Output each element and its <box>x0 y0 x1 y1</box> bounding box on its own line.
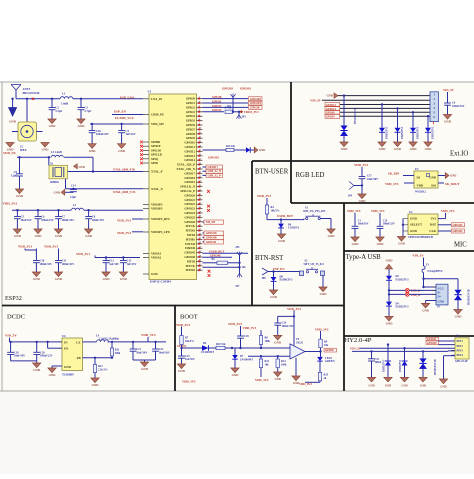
svg-text:GND: GND <box>92 383 100 387</box>
svg-text:ESD5Z5V3: ESD5Z5V3 <box>417 126 420 139</box>
svg-text:GND: GND <box>455 315 463 319</box>
svg-text:100nF/22V: 100nF/22V <box>40 263 53 266</box>
svg-text:GPIO11: GPIO11 <box>184 145 195 149</box>
svg-text:VDD3P3_RTC: VDD3P3_RTC <box>151 217 170 221</box>
svg-text:GPIO19: GPIO19 <box>208 156 219 160</box>
svg-text:GND: GND <box>450 174 456 178</box>
svg-text:VDD_3V3: VDD_3V3 <box>385 182 399 186</box>
svg-text:GPIO23: GPIO23 <box>184 207 195 211</box>
svg-text:9: 9 <box>199 123 200 125</box>
svg-text:GND: GND <box>151 272 159 276</box>
svg-text:GPIO18: GPIO18 <box>222 87 233 91</box>
svg-text:10uF/50V: 10uF/50V <box>367 178 378 181</box>
svg-text:VDD_3V3: VDD_3V3 <box>371 209 385 213</box>
svg-text:BTN-USER: BTN-USER <box>255 169 289 176</box>
svg-text:GPIO8: GPIO8 <box>325 348 334 352</box>
svg-text:GND: GND <box>259 148 265 152</box>
svg-text:21: 21 <box>199 176 201 178</box>
svg-text:GND: GND <box>9 120 17 124</box>
svg-text:GPIO20: GPIO20 <box>184 193 195 197</box>
svg-text:100k: 100k <box>281 364 287 367</box>
svg-text:35: 35 <box>199 238 201 240</box>
svg-text:FLASH_VCC: FLASH_VCC <box>115 116 135 120</box>
svg-text:VDDA2: VDDA2 <box>151 256 162 260</box>
svg-text:U1: U1 <box>148 89 152 93</box>
svg-text:GND: GND <box>410 229 418 233</box>
svg-text:42: 42 <box>199 269 201 271</box>
svg-text:ESD5Z5V3: ESD5Z5V3 <box>383 359 386 372</box>
svg-text:SMT_SW_TS_013: SMT_SW_TS_013 <box>304 263 325 266</box>
svg-text:ESP_EN: ESP_EN <box>114 109 127 113</box>
svg-text:R10 51k: R10 51k <box>216 343 226 346</box>
svg-text:IPEX: IPEX <box>20 148 27 152</box>
svg-text:15k: 15k <box>242 266 247 269</box>
svg-text:4: 4 <box>199 101 200 103</box>
svg-text:GPIO5: GPIO5 <box>186 119 196 123</box>
svg-text:GPIO3: GPIO3 <box>212 108 222 112</box>
svg-text:1N4148WT: 1N4148WT <box>240 358 253 361</box>
svg-text:GND: GND <box>103 277 111 281</box>
svg-text:GPIO39: GPIO39 <box>206 231 217 235</box>
svg-text:MTDO: MTDO <box>186 268 196 272</box>
svg-text:VDD_3V3: VDD_3V3 <box>287 307 301 311</box>
svg-text:GND: GND <box>359 199 367 203</box>
svg-text:30: 30 <box>199 216 201 218</box>
svg-text:GND: GND <box>440 385 446 389</box>
svg-text:ESP32-C3FH4: ESP32-C3FH4 <box>150 280 171 284</box>
svg-text:37: 37 <box>199 247 201 249</box>
svg-text:GPIO19: GPIO19 <box>250 101 261 105</box>
svg-text:22: 22 <box>199 181 201 183</box>
svg-text:HY2.0-4P: HY2.0-4P <box>345 337 372 344</box>
svg-text:GPIO13: GPIO13 <box>184 154 195 158</box>
svg-text:CHIP_PU: CHIP_PU <box>151 113 165 117</box>
svg-text:34: 34 <box>199 233 201 235</box>
svg-text:500k: 500k <box>115 352 121 355</box>
svg-text:GND: GND <box>118 149 126 153</box>
svg-text:20: 20 <box>199 172 201 174</box>
svg-text:GND: GND <box>385 383 391 387</box>
svg-text:GPIO8: GPIO8 <box>212 95 222 99</box>
svg-text:GND: GND <box>386 258 394 262</box>
svg-text:GND: GND <box>64 365 72 369</box>
svg-text:10uF/16V: 10uF/16V <box>358 223 369 226</box>
svg-text:100nF/25V: 100nF/25V <box>452 105 465 108</box>
svg-text:GPIO1: GPIO1 <box>212 99 222 103</box>
svg-text:VDD_3V3: VDD_3V3 <box>182 380 196 384</box>
svg-text:GND: GND <box>398 242 406 246</box>
svg-text:VDD_3V1: VDD_3V1 <box>76 252 90 256</box>
svg-text:GPIO26: GPIO26 <box>184 220 195 224</box>
svg-text:GPIO10: GPIO10 <box>184 141 195 145</box>
svg-text:28: 28 <box>199 207 201 209</box>
svg-text:12pF: 12pF <box>11 174 17 178</box>
svg-text:32: 32 <box>199 225 201 227</box>
svg-text:23: 23 <box>199 185 201 187</box>
svg-text:SK_DOUT: SK_DOUT <box>445 182 459 186</box>
svg-text:PIN4: PIN4 <box>457 353 464 357</box>
svg-text:GND: GND <box>386 322 394 326</box>
svg-text:GND: GND <box>79 165 85 169</box>
svg-text:GND: GND <box>89 149 97 153</box>
svg-text:JP3: JP3 <box>242 116 247 119</box>
svg-text:VDD_3V3: VDD_3V3 <box>176 323 190 327</box>
svg-text:100nF/22V: 100nF/22V <box>40 355 53 358</box>
svg-text:TCR8B9: TCR8B9 <box>62 372 74 376</box>
svg-text:0.5A@PPTC: 0.5A@PPTC <box>428 269 443 273</box>
svg-text:JP4: JP4 <box>348 195 353 198</box>
svg-text:36: 36 <box>199 242 201 244</box>
svg-text:PIN1: PIN1 <box>457 339 464 343</box>
svg-text:GND: GND <box>422 309 430 313</box>
svg-text:GND: GND <box>33 277 41 281</box>
svg-text:10k: 10k <box>324 344 329 347</box>
svg-text:24: 24 <box>199 189 201 191</box>
svg-text:GND: GND <box>35 234 43 238</box>
svg-text:GND: GND <box>16 194 24 198</box>
svg-text:GND: GND <box>425 147 433 151</box>
svg-text:GND: GND <box>53 191 60 195</box>
svg-text:VDD_3V3: VDD_3V3 <box>354 163 368 167</box>
svg-text:XTAL_32K_N: XTAL_32K_N <box>176 167 195 171</box>
svg-text:GPIO18: GPIO18 <box>184 176 195 180</box>
svg-text:VDD3P3: VDD3P3 <box>151 207 163 211</box>
svg-text:3V3: 3V3 <box>431 217 437 221</box>
svg-text:DAT: DAT <box>430 223 436 227</box>
svg-text:VDD_3V3: VDD_3V3 <box>347 209 361 213</box>
svg-text:GPIO8: GPIO8 <box>250 106 260 110</box>
svg-text:GPIO19: GPIO19 <box>184 180 195 184</box>
svg-text:GPIO14: GPIO14 <box>184 158 195 162</box>
svg-text:MTDI: MTDI <box>187 233 196 237</box>
svg-text:C10D5V3: C10D5V3 <box>288 227 300 230</box>
svg-text:40: 40 <box>199 260 201 262</box>
svg-text:100nF/25V: 100nF/25V <box>282 325 295 328</box>
svg-text:CLK: CLK <box>429 229 436 233</box>
svg-text:GPIO24: GPIO24 <box>184 211 195 215</box>
svg-text:38: 38 <box>199 251 201 253</box>
svg-text:RGB LED: RGB LED <box>296 172 325 179</box>
svg-text:GPIO9: GPIO9 <box>186 136 196 140</box>
svg-text:8: 8 <box>199 119 200 121</box>
svg-text:GND: GND <box>420 383 426 387</box>
svg-text:GND: GND <box>14 234 22 238</box>
svg-text:C14: C14 <box>71 184 76 188</box>
svg-text:17: 17 <box>199 159 201 161</box>
svg-text:GPIO1: GPIO1 <box>186 101 196 105</box>
svg-text:VDD_3V3: VDD_3V3 <box>243 326 257 330</box>
svg-text:VDD_3V3: VDD_3V3 <box>441 209 455 213</box>
svg-text:GPIO40: GPIO40 <box>206 236 217 240</box>
svg-text:GND: GND <box>78 124 86 128</box>
svg-text:GND: GND <box>141 367 149 371</box>
svg-text:10: 10 <box>199 128 201 130</box>
svg-text:2.1k/1%: 2.1k/1% <box>98 369 108 372</box>
svg-text:GPIO18: GPIO18 <box>250 97 261 101</box>
svg-text:GND: GND <box>401 383 407 387</box>
svg-text:GND: GND <box>278 239 286 243</box>
svg-text:10uF/16V: 10uF/16V <box>21 219 32 222</box>
svg-text:JP5: JP5 <box>235 246 240 249</box>
svg-text:VIN_5V: VIN_5V <box>412 254 424 258</box>
svg-text:29: 29 <box>199 211 201 213</box>
svg-text:GND: GND <box>326 94 333 98</box>
svg-text:ESD5Z5V3: ESD5Z5V3 <box>432 126 435 139</box>
svg-text:22k: 22k <box>231 145 236 148</box>
svg-text:39: 39 <box>199 255 201 257</box>
svg-text:GPIO8: GPIO8 <box>186 132 196 136</box>
svg-text:PROANT440: PROANT440 <box>23 91 40 95</box>
svg-text:U3: U3 <box>415 167 419 171</box>
svg-text:WS2812: WS2812 <box>415 190 426 194</box>
svg-text:GND: GND <box>270 295 278 299</box>
svg-text:10k/5%: 10k/5% <box>185 340 194 343</box>
svg-text:GND: GND <box>438 299 445 303</box>
svg-text:U2: U2 <box>409 210 413 214</box>
svg-text:10k: 10k <box>265 364 270 367</box>
svg-text:VDD_3V3: VDD_3V3 <box>117 218 131 222</box>
svg-text:GPIO17: GPIO17 <box>184 171 195 175</box>
svg-text:100nF/25V: 100nF/25V <box>41 219 54 222</box>
svg-text:25: 25 <box>199 194 201 196</box>
svg-text:PESD5Z5V1B: PESD5Z5V1B <box>354 107 357 124</box>
svg-text:41: 41 <box>199 264 201 266</box>
svg-text:GPIO12: GPIO12 <box>184 149 195 153</box>
svg-text:10uF/16V: 10uF/16V <box>159 351 170 354</box>
svg-text:GPIO4: GPIO4 <box>186 114 196 118</box>
svg-text:GND: GND <box>49 373 57 377</box>
svg-text:MI_SD: MI_SD <box>206 220 215 224</box>
svg-text:GPIO45: GPIO45 <box>184 251 195 255</box>
svg-text:FB: FB <box>77 356 81 360</box>
svg-text:VDD3_3V1: VDD3_3V1 <box>244 110 259 114</box>
svg-text:SPICLK_N: SPICLK_N <box>180 185 196 189</box>
svg-text:VIN_5V: VIN_5V <box>350 346 362 350</box>
svg-text:USB_32_P: USB_32_P <box>208 173 222 177</box>
svg-text:XTAL_32K_P: XTAL_32K_P <box>177 163 195 167</box>
svg-text:26: 26 <box>199 198 201 200</box>
svg-text:USB_D+: USB_D+ <box>411 293 422 297</box>
svg-text:27: 27 <box>199 203 201 205</box>
svg-text:GPIO25: GPIO25 <box>184 215 195 219</box>
svg-text:GND: GND <box>410 147 418 151</box>
svg-text:GPIO0: GPIO0 <box>186 97 196 101</box>
svg-text:C18: C18 <box>244 335 249 338</box>
svg-text:GND: GND <box>274 341 282 345</box>
svg-text:VDD_3V3: VDD_3V3 <box>18 245 32 249</box>
svg-text:VDD_3V3: VDD_3V3 <box>141 333 156 337</box>
svg-text:GND: GND <box>85 234 93 238</box>
svg-text:1uF/16V: 1uF/16V <box>125 132 135 136</box>
svg-text:GND: GND <box>368 383 374 387</box>
svg-text:100nF/25V: 100nF/25V <box>62 219 75 222</box>
svg-text:GND: GND <box>352 242 360 246</box>
svg-text:BTN-RST: BTN-RST <box>255 255 284 262</box>
svg-text:GPIO11: GPIO11 <box>427 338 437 341</box>
svg-text:7: 7 <box>199 115 200 117</box>
svg-text:10uF/16V: 10uF/16V <box>14 355 25 358</box>
svg-text:JP7: JP7 <box>235 285 240 288</box>
svg-text:ESD5Z5V3: ESD5Z5V3 <box>399 359 402 372</box>
svg-text:MTCK: MTCK <box>186 264 196 268</box>
svg-text:10uF/16V: 10uF/16V <box>136 351 147 354</box>
svg-text:VDD_3V3: VDD_3V3 <box>257 194 271 198</box>
svg-text:VIN_5V: VIN_5V <box>443 88 455 92</box>
svg-text:GH1.25-4P: GH1.25-4P <box>455 360 468 363</box>
svg-text:33: 33 <box>199 229 201 231</box>
svg-text:MTDI: MTDI <box>187 259 196 263</box>
svg-text:BOOT: BOOT <box>180 314 198 321</box>
svg-text:LNA_IN: LNA_IN <box>151 97 163 101</box>
svg-text:GPIO22: GPIO22 <box>184 202 195 206</box>
svg-text:USER_BUT: USER_BUT <box>277 214 293 218</box>
svg-text:U4: U4 <box>62 334 66 338</box>
svg-text:40MHz: 40MHz <box>50 180 60 184</box>
svg-text:JP1: JP1 <box>227 105 232 108</box>
svg-text:GPIO6: GPIO6 <box>186 123 196 127</box>
svg-text:XTAL_N: XTAL_N <box>151 187 164 191</box>
svg-text:XTAL_60M_P 56: XTAL_60M_P 56 <box>113 167 135 171</box>
svg-text:GPIO2: GPIO2 <box>186 105 196 109</box>
svg-text:SPM1423HM4H-B: SPM1423HM4H-B <box>408 235 433 239</box>
svg-text:ESD5Z5V3: ESD5Z5V3 <box>396 306 410 309</box>
svg-text:VDD3P3_CPU: VDD3P3_CPU <box>151 230 171 234</box>
svg-text:GPIO41: GPIO41 <box>206 240 217 244</box>
svg-text:14: 14 <box>199 145 201 147</box>
svg-text:ESP_LNA: ESP_LNA <box>120 96 135 100</box>
svg-text:GPIO44: GPIO44 <box>453 229 464 233</box>
svg-text:100k: 100k <box>265 340 271 343</box>
svg-text:GPIO19: GPIO19 <box>240 87 251 91</box>
svg-text:GND: GND <box>341 147 349 151</box>
svg-text:L3 1.6nH: L3 1.6nH <box>51 151 63 154</box>
svg-text:GND: GND <box>320 292 328 296</box>
svg-text:2.2uH/1.2A@80m: 2.2uH/1.2A@80m <box>99 337 120 340</box>
svg-text:MTMS: MTMS <box>186 237 196 241</box>
svg-text:XTAL_P: XTAL_P <box>151 170 163 174</box>
svg-text:DO: DO <box>431 183 436 187</box>
svg-text:6: 6 <box>199 110 200 112</box>
svg-text:SMT_SW_PTS_R25: SMT_SW_PTS_R25 <box>303 210 326 213</box>
svg-text:10k/5%: 10k/5% <box>271 210 280 213</box>
svg-text:VDD: VDD <box>417 183 424 187</box>
svg-text:X1: X1 <box>50 161 54 165</box>
svg-text:13: 13 <box>199 141 201 143</box>
svg-text:2.7pF: 2.7pF <box>84 109 91 113</box>
svg-text:GND: GND <box>379 147 387 151</box>
svg-text:VDD_3V3: VDD_3V3 <box>44 245 58 249</box>
svg-text:VDD_3V3: VDD_3V3 <box>315 328 329 332</box>
svg-text:DCDC: DCDC <box>7 314 25 321</box>
svg-text:GND: GND <box>328 234 336 238</box>
svg-text:VDD_SPI: VDD_SPI <box>151 122 165 126</box>
svg-text:1.6nH: 1.6nH <box>61 101 69 105</box>
svg-text:VDD_3V3: VDD_3V3 <box>255 378 269 382</box>
svg-text:PESD5Z5V1B: PESD5Z5V1B <box>468 289 471 305</box>
svg-text:GPIO7: GPIO7 <box>186 127 196 131</box>
svg-text:18: 18 <box>199 163 201 165</box>
svg-text:ESD5Z5V3: ESD5Z5V3 <box>396 279 410 282</box>
svg-text:VDD_3V3: VDD_3V3 <box>117 231 131 235</box>
svg-text:SK_DIN: SK_DIN <box>388 172 400 176</box>
svg-text:31: 31 <box>199 220 201 222</box>
svg-text:SELECT: SELECT <box>410 223 422 227</box>
svg-text:100nF/22V: 100nF/22V <box>62 263 75 266</box>
svg-text:ESP32: ESP32 <box>5 295 22 302</box>
svg-text:ESD5Z5V3: ESD5Z5V3 <box>386 126 389 139</box>
svg-text:15: 15 <box>199 150 201 152</box>
svg-text:1uF/16V: 1uF/16V <box>185 358 195 361</box>
svg-text:VDD_NC: VDD_NC <box>3 151 17 155</box>
svg-text:16: 16 <box>199 154 201 156</box>
svg-text:100nF/25V: 100nF/25V <box>383 223 395 226</box>
svg-text:GPIO46: GPIO46 <box>184 255 195 259</box>
svg-text:GND: GND <box>232 373 240 377</box>
svg-text:ESD8Z5V3: ESD8Z5V3 <box>280 279 294 282</box>
svg-text:12: 12 <box>199 137 201 139</box>
svg-text:100nF/25V: 100nF/25V <box>96 132 109 136</box>
svg-text:Type-A USB: Type-A USB <box>346 254 382 261</box>
svg-text:SPICLK_P: SPICLK_P <box>180 189 195 193</box>
svg-text:GND: GND <box>394 147 402 151</box>
svg-text:VIN_5V: VIN_5V <box>5 334 17 338</box>
svg-text:GPIO3: GPIO3 <box>186 110 196 114</box>
svg-text:SPID: SPID <box>151 161 159 165</box>
svg-text:GND: GND <box>55 234 63 238</box>
svg-text:G8231: G8231 <box>296 341 304 344</box>
svg-text:VDD_3V3: VDD_3V3 <box>228 322 242 326</box>
svg-text:GPIO2: GPIO2 <box>212 104 222 108</box>
svg-text:GND: GND <box>42 148 50 152</box>
svg-text:U0RXD: U0RXD <box>185 246 196 250</box>
svg-text:GND: GND <box>33 368 41 372</box>
svg-text:MTCK: MTCK <box>186 224 196 228</box>
svg-text:VIN_5V: VIN_5V <box>310 98 322 102</box>
svg-text:Ext.IO: Ext.IO <box>450 151 468 158</box>
svg-text:GREEN: GREEN <box>325 360 335 363</box>
svg-text:GND: GND <box>444 120 452 124</box>
svg-text:GPIO21: GPIO21 <box>184 198 195 202</box>
svg-text:GND: GND <box>429 175 437 179</box>
svg-text:100nF/25V: 100nF/25V <box>92 219 105 222</box>
svg-text:19: 19 <box>199 167 201 169</box>
svg-text:MIC: MIC <box>454 242 467 249</box>
svg-text:GND: GND <box>120 277 128 281</box>
svg-text:U0TXD: U0TXD <box>185 242 196 246</box>
svg-text:VDD_3V3: VDD_3V3 <box>3 202 18 206</box>
svg-text:12pF: 12pF <box>70 195 76 199</box>
svg-text:GND: GND <box>49 124 57 128</box>
svg-text:D+: D+ <box>438 294 442 298</box>
svg-text:VDD_3V3: VDD_3V3 <box>299 382 312 386</box>
svg-text:GPIO46: GPIO46 <box>210 254 221 258</box>
svg-text:JP6: JP6 <box>262 277 267 280</box>
svg-text:GND: GND <box>55 277 63 281</box>
svg-text:ESD5Z5V3: ESD5Z5V3 <box>401 126 404 139</box>
svg-text:PIN3: PIN3 <box>457 349 464 353</box>
svg-text:GND: GND <box>410 217 418 221</box>
svg-text:GND: GND <box>178 369 186 373</box>
svg-text:GPIO9: GPIO9 <box>326 115 335 119</box>
svg-text:1N4148WT: 1N4148WT <box>201 351 214 354</box>
svg-text:1uF/16V: 1uF/16V <box>109 263 119 266</box>
svg-text:100nF: 100nF <box>375 361 382 364</box>
svg-text:PESD5Z5V1B: PESD5Z5V1B <box>434 359 437 375</box>
svg-text:GPIO10: GPIO10 <box>427 342 437 345</box>
svg-text:3: 3 <box>199 97 200 99</box>
svg-text:GND: GND <box>377 242 385 246</box>
svg-text:MTDO: MTDO <box>186 229 196 233</box>
